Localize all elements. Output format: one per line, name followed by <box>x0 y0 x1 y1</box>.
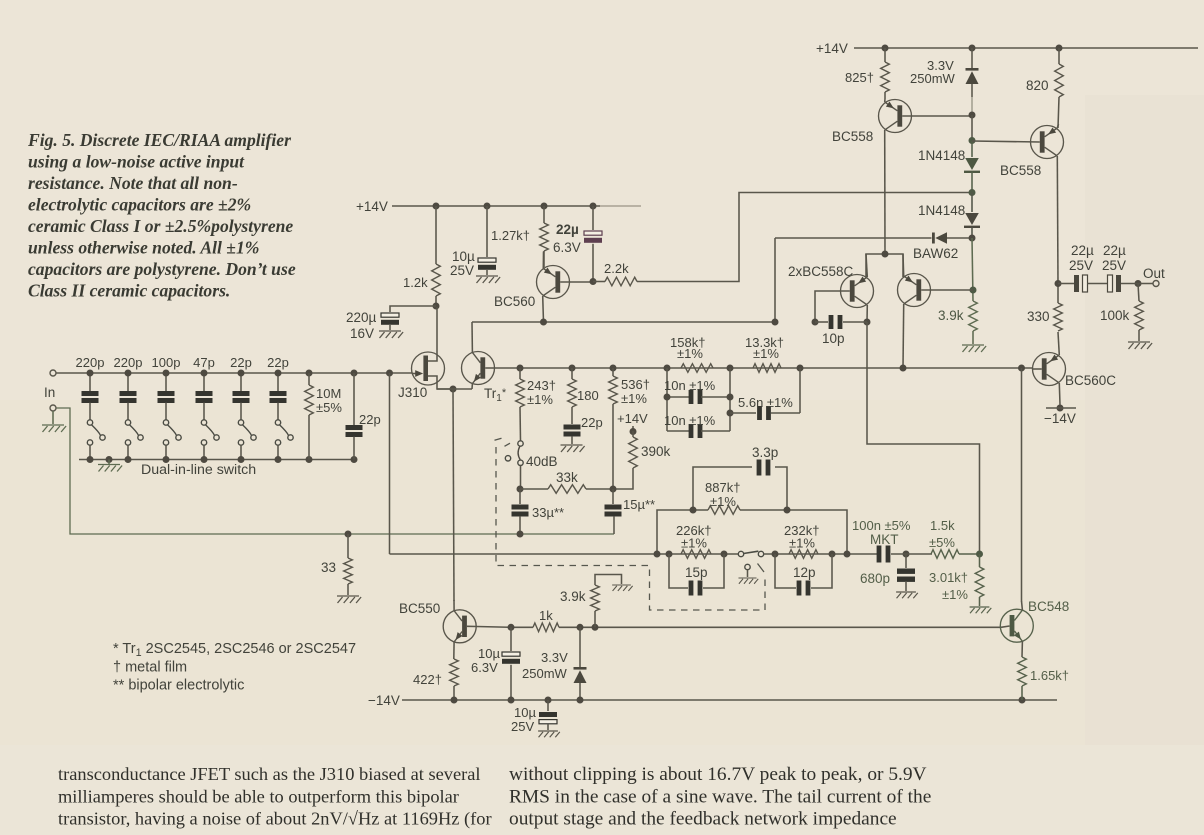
capacitor 5.6n <box>730 368 800 420</box>
svg-text:1k: 1k <box>539 608 553 623</box>
svg-text:3.3V: 3.3V <box>541 650 568 665</box>
capacitor 22p emitter <box>564 425 581 445</box>
svg-text:BAW62: BAW62 <box>913 246 958 261</box>
node output coupling junctions <box>1055 280 1142 287</box>
label 330 <box>1027 309 1050 324</box>
wire source-emitter tie <box>437 388 472 390</box>
svg-text:electrolytic capacitors are ±2: electrolytic capacitors are ±2% <box>28 195 251 215</box>
svg-text:243†: 243† <box>527 378 556 393</box>
node BC558C emitter tie junction <box>882 251 889 258</box>
resistor 2.2k <box>593 193 969 286</box>
svg-text:10µ: 10µ <box>452 249 475 264</box>
node Out terminal <box>1153 281 1159 287</box>
node 1.2k bottom junction <box>433 303 440 310</box>
label 12p <box>793 565 816 580</box>
label 220p #2 <box>114 355 143 370</box>
node +14V mid stub <box>630 426 637 435</box>
svg-text:10n ±1%: 10n ±1% <box>664 378 716 393</box>
switch feedback <box>738 551 763 557</box>
wire Tr1 collector line <box>472 321 775 323</box>
wire +14V left rail <box>392 205 641 207</box>
svg-text:BC548: BC548 <box>1028 599 1069 614</box>
label BC560 <box>494 294 535 309</box>
svg-text:resistance. Note that all non-: resistance. Note that all non- <box>28 173 238 193</box>
node feedback output junction <box>976 551 983 558</box>
svg-text:15µ**: 15µ** <box>623 497 655 512</box>
wire feedback row mid <box>764 553 878 555</box>
resistor 887k <box>657 506 847 554</box>
ground 100k <box>1128 342 1152 349</box>
label BC550 <box>399 601 440 616</box>
ground 10u 25V lower <box>538 731 560 737</box>
wire collector row <box>477 626 533 629</box>
svg-text:22µ: 22µ <box>556 222 579 237</box>
svg-text:BC560C: BC560C <box>1065 373 1116 388</box>
resistor 422 <box>450 659 459 700</box>
resistor 1.5k <box>931 550 980 559</box>
resistor 243 <box>516 368 525 441</box>
label 158k ±1% <box>670 335 705 361</box>
node 10p row junctions <box>772 319 871 326</box>
capacitor 10n second <box>667 424 730 438</box>
diode 1N4148 second <box>964 193 980 239</box>
svg-text:transistor, having a noise of: transistor, having a noise of about 2nV/… <box>58 809 492 830</box>
svg-text:25V: 25V <box>1069 258 1093 273</box>
svg-text:* Tr1 2SC2545, 2SC2546 or 2SC2: * Tr1 2SC2545, 2SC2546 or 2SC2547 <box>113 641 356 659</box>
transistor BC548 <box>1000 601 1033 657</box>
svg-text:+14V: +14V <box>816 41 848 56</box>
node 10n junctions <box>664 394 734 417</box>
svg-text:10p: 10p <box>822 331 845 346</box>
label Out <box>1143 266 1165 281</box>
svg-text:1N4148: 1N4148 <box>918 203 965 218</box>
svg-text:RMS in the case of a sine wave: RMS in the case of a sine wave. The tail… <box>509 786 931 807</box>
svg-text:422†: 422† <box>413 672 442 687</box>
resistor 158k <box>681 364 713 373</box>
label 1.5k ±5% <box>929 518 955 550</box>
label 22u 25V second <box>1102 243 1126 273</box>
wire -14V stub <box>1046 407 1076 409</box>
svg-text:±5%: ±5% <box>316 400 342 415</box>
resistor 232k <box>789 550 818 559</box>
svg-text:25V: 25V <box>511 719 534 734</box>
svg-text:Fig. 5. Discrete IEC/RIAA ampl: Fig. 5. Discrete IEC/RIAA amplifier <box>27 130 291 150</box>
svg-text:using a low-noise active input: using a low-noise active input <box>28 152 245 172</box>
label J310 <box>398 385 427 400</box>
ground 33 <box>337 596 361 603</box>
svg-text:180: 180 <box>577 388 599 403</box>
wire 10n left column <box>666 368 668 431</box>
svg-text:10µ: 10µ <box>478 646 500 661</box>
node 536 bottom junction <box>610 486 617 493</box>
capacitor 100p #3 <box>158 373 175 420</box>
node feedback row junctions <box>654 551 728 558</box>
resistor 33k <box>520 485 613 494</box>
switch 40dB <box>505 441 523 486</box>
label 100k <box>1100 308 1130 323</box>
resistor 3.01k <box>975 554 984 606</box>
wire 10n right column <box>729 368 731 431</box>
resistor 180 <box>568 368 577 424</box>
svg-text:Dual-in-line switch: Dual-in-line switch <box>141 462 256 478</box>
wire -14V rail <box>402 699 1057 701</box>
ground 10u 25V upper <box>476 276 500 283</box>
ground 3.9k right <box>962 345 986 352</box>
label 33k <box>556 470 578 485</box>
label 33u <box>532 505 564 520</box>
node input rail junctions <box>87 370 394 377</box>
label 100n ±5% MKT <box>852 518 911 547</box>
svg-text:±1%: ±1% <box>527 392 553 407</box>
svg-text:output stage and the feedback: output stage and the feedback network im… <box>509 809 897 830</box>
svg-text:±1%: ±1% <box>677 346 703 361</box>
resistor 1.27k <box>540 206 549 267</box>
svg-text:33µ**: 33µ** <box>532 505 564 520</box>
capacitor 10u 25V upper <box>478 206 496 275</box>
capacitor 10p <box>815 315 867 329</box>
node BC560 base junction <box>590 278 597 285</box>
transistor J310 <box>412 307 451 389</box>
transistor BC560C <box>1033 332 1066 405</box>
node -14V rail junctions <box>451 697 1026 704</box>
label 243 ±1% <box>527 378 556 407</box>
svg-text:unless otherwise noted. All ±1: unless otherwise noted. All ±1% <box>28 238 259 258</box>
resistor 330 <box>1054 284 1063 332</box>
resistor 100k <box>1135 284 1144 342</box>
label 22p #6 <box>267 355 289 370</box>
svg-text:−14V: −14V <box>368 693 400 708</box>
capacitor 3.3p <box>693 460 787 511</box>
svg-text:887k†: 887k† <box>705 480 740 495</box>
label 1N4148 first <box>918 148 965 163</box>
capacitor 680p <box>897 554 915 591</box>
svg-text:15p: 15p <box>685 565 708 580</box>
label 2xBC558C <box>788 264 854 279</box>
label Dual-in-line switch <box>141 462 256 478</box>
label 3.3V 250mW top <box>910 58 956 86</box>
capacitor 22u 25V first <box>1058 275 1108 292</box>
svg-text:33: 33 <box>321 560 336 575</box>
svg-text:±1%: ±1% <box>789 536 815 551</box>
switch feedback ground post <box>738 564 758 583</box>
label 15u <box>623 497 655 512</box>
switch S6 <box>275 420 293 460</box>
wire zener column to 3.9k <box>972 238 973 301</box>
resistor 226k <box>681 550 711 559</box>
ground 3.01k <box>970 607 992 613</box>
label 825 <box>845 70 874 85</box>
wire BC550 base column <box>453 389 454 601</box>
svg-text:1.65k†: 1.65k† <box>1030 668 1069 683</box>
resistor 13.3k <box>753 364 781 373</box>
svg-text:330: 330 <box>1027 309 1050 324</box>
svg-text:6.3V: 6.3V <box>553 240 581 255</box>
label 3.3V 250mW bottom <box>522 650 568 681</box>
wire +14V top rail <box>854 47 1198 49</box>
wire BC548 collector column <box>1021 368 1023 602</box>
svg-text:680p: 680p <box>860 571 890 586</box>
diode BAW62 <box>775 232 969 244</box>
node diode mid junction <box>969 189 976 196</box>
svg-text:Class II ceramic capacitors.: Class II ceramic capacitors. <box>28 281 230 301</box>
svg-text:820: 820 <box>1026 78 1049 93</box>
wire feedback tap vertical <box>389 373 391 554</box>
capacitor 33u <box>512 489 529 534</box>
svg-text:5.6n ±1%: 5.6n ±1% <box>738 395 793 410</box>
label 10u 25V upper <box>450 249 475 278</box>
svg-text:220p: 220p <box>76 355 105 370</box>
label 1.27k <box>491 228 530 243</box>
svg-text:BC558: BC558 <box>832 129 873 144</box>
capacitor 10n first <box>667 390 730 404</box>
svg-text:100p: 100p <box>152 355 181 370</box>
svg-text:3.9k: 3.9k <box>560 589 586 604</box>
transistor Tr1 <box>462 322 495 389</box>
capacitor 220u 16V <box>381 306 436 330</box>
svg-text:250mW: 250mW <box>522 666 568 681</box>
label BC558 second <box>1000 163 1041 178</box>
resistor 3.9k mid <box>591 575 622 628</box>
switch S3 <box>163 420 181 460</box>
label +14V top <box>816 41 848 56</box>
resistor 390k <box>613 431 637 489</box>
svg-text:220p: 220p <box>114 355 143 370</box>
label 10p <box>822 331 845 346</box>
node BC558C right base junction <box>970 287 977 294</box>
node DIL bottom rail junctions <box>87 456 358 463</box>
label 680p <box>860 571 890 586</box>
svg-text:** bipolar electrolytic: ** bipolar electrolytic <box>113 678 244 694</box>
svg-text:220µ: 220µ <box>346 310 377 325</box>
svg-text:825†: 825† <box>845 70 874 85</box>
capacitor 15u <box>605 489 622 534</box>
label 3.3p <box>752 445 778 460</box>
svg-text:capacitors are polystyrene. Do: capacitors are polystyrene. Don’t use <box>28 259 296 279</box>
label 22u 6.3V <box>553 222 581 255</box>
svg-text:3.3p: 3.3p <box>752 445 778 460</box>
node 887k junctions <box>690 507 791 514</box>
ground In <box>42 425 66 432</box>
resistor 536 <box>609 368 618 489</box>
node 33u bottom junction <box>345 531 524 538</box>
label 22u 25V first <box>1069 243 1094 273</box>
transistor BC558 second <box>972 124 1064 284</box>
switch S2 <box>125 420 143 460</box>
label 10n first <box>664 378 716 393</box>
svg-text:−14V: −14V <box>1044 411 1076 426</box>
node main rail junctions <box>517 365 1026 372</box>
ground 3.9k mid <box>612 585 632 591</box>
resistor 33 <box>344 534 353 595</box>
switch S1 <box>87 420 105 460</box>
label BAW62 <box>913 246 958 261</box>
svg-text:BC550: BC550 <box>399 601 440 616</box>
label 22p emitter <box>581 415 603 430</box>
ground 22p emitter <box>561 445 585 452</box>
label 1k <box>539 608 553 623</box>
label 10u 25V lower <box>511 705 536 734</box>
label 15p <box>685 565 708 580</box>
node feedback row junctions right <box>772 551 910 558</box>
node 33k left junction <box>517 486 524 493</box>
wire zener to diode chain <box>971 115 973 140</box>
label 820 <box>1026 78 1049 93</box>
svg-text:† metal film: † metal film <box>113 660 187 676</box>
label 390k <box>641 444 671 459</box>
svg-text:J310: J310 <box>398 385 427 400</box>
body text right column <box>509 764 931 830</box>
svg-text:3.9k: 3.9k <box>938 308 964 323</box>
capacitor 22u 6.3V <box>584 206 602 281</box>
svg-text:536†: 536† <box>621 377 650 392</box>
label 1N4148 second <box>918 203 965 218</box>
node emitter-source junction <box>450 386 457 393</box>
wire DIL bottom rail <box>79 459 354 461</box>
node +14V top rail junctions <box>882 45 1063 52</box>
label 180 <box>577 388 599 403</box>
svg-text:12p: 12p <box>793 565 816 580</box>
svg-text:without clipping is about 16.7: without clipping is about 16.7V peak to … <box>509 764 927 785</box>
capacitor 12p <box>775 554 832 596</box>
svg-text:BC560: BC560 <box>494 294 535 309</box>
label 232k ±1% <box>784 523 819 551</box>
svg-text:10n ±1%: 10n ±1% <box>664 413 716 428</box>
resistor 10M <box>305 373 314 460</box>
label 13.3k ±1% <box>745 335 784 361</box>
svg-text:1.5k: 1.5k <box>930 518 955 533</box>
node zener-base junction <box>969 112 976 119</box>
label 220p #1 <box>76 355 105 370</box>
label BC548 <box>1028 599 1069 614</box>
label 422 <box>413 672 442 687</box>
resistor 1.65k <box>1018 657 1027 700</box>
svg-text:MKT: MKT <box>870 532 899 547</box>
svg-text:3.01k†: 3.01k† <box>929 570 968 585</box>
label BC560C <box>1065 373 1116 388</box>
wire feedback row left <box>390 553 739 555</box>
svg-text:47p: 47p <box>193 355 215 370</box>
dashed switch linkage <box>495 438 766 610</box>
label Tr1* <box>484 386 507 404</box>
node BC560C collector junction <box>1057 405 1064 412</box>
label 2.2k <box>604 261 629 276</box>
label 3.01k ±1% <box>929 570 968 602</box>
label 1.65k <box>1030 668 1069 683</box>
svg-text:40dB: 40dB <box>526 454 558 469</box>
node first diode node <box>969 137 976 144</box>
svg-text:1.2k: 1.2k <box>403 275 428 290</box>
ground 220u <box>379 331 403 338</box>
svg-text:22p: 22p <box>267 355 289 370</box>
diode zener 3.3V bottom <box>574 627 587 700</box>
capacitor 10u 6.3V <box>502 627 520 700</box>
transistor BC558C right <box>898 254 974 368</box>
capacitor 47p #4 <box>196 373 213 420</box>
svg-text:100k: 100k <box>1100 308 1130 323</box>
wire main rail <box>494 367 1033 369</box>
node BC560 collector junction <box>540 319 547 326</box>
transistor BC558 first <box>879 99 970 254</box>
svg-text:1N4148: 1N4148 <box>918 148 965 163</box>
transistor BC550 <box>443 600 477 659</box>
label In <box>44 385 55 400</box>
label 3.9k mid <box>560 589 586 604</box>
body text left column <box>58 764 492 830</box>
node 1k right junctions <box>577 624 599 631</box>
wire In lower terminal right-down to bottom line <box>57 408 615 534</box>
capacitor 22u 25V second <box>1108 275 1153 292</box>
node In terminal <box>50 370 56 411</box>
node +14V left rail junctions <box>433 203 597 210</box>
resistor 1.2k <box>432 206 441 306</box>
svg-text:±1%: ±1% <box>710 494 736 509</box>
node BAW62 node <box>969 235 976 242</box>
wire BC558C emitter tie <box>866 254 903 278</box>
resistor 820 <box>1055 48 1064 128</box>
capacitor 10u 25V lower <box>539 700 557 730</box>
label 1.2k <box>403 275 428 290</box>
label 40dB <box>526 454 558 469</box>
capacitor 15p <box>669 554 724 596</box>
svg-text:25V: 25V <box>450 263 474 278</box>
label 47p #4 <box>193 355 215 370</box>
ground DIL bottom rail <box>98 465 122 472</box>
capacitor 22p input <box>346 373 363 460</box>
label 22p input <box>359 412 381 427</box>
svg-text:1.27k†: 1.27k† <box>491 228 530 243</box>
svg-text:In: In <box>44 385 55 400</box>
transistor BC558C left <box>815 254 874 322</box>
resistor 825 <box>881 48 890 99</box>
label -14V right <box>1044 411 1076 426</box>
resistor 3.9k right <box>969 301 978 344</box>
svg-text:+14V: +14V <box>617 411 648 426</box>
svg-text:±1%: ±1% <box>621 391 647 406</box>
resistor 1k <box>533 623 1001 632</box>
label 10u 6.3V <box>471 646 500 675</box>
label -14V left <box>368 693 400 708</box>
transistor BC560 <box>537 252 594 323</box>
wire BAW62 drop <box>774 238 776 322</box>
svg-text:390k: 390k <box>641 444 671 459</box>
label 5.6n <box>738 395 793 410</box>
svg-text:10µ: 10µ <box>514 705 536 720</box>
node 1k left junction <box>508 624 515 631</box>
label 33 <box>321 560 336 575</box>
label 226k ±1% <box>676 523 711 551</box>
wire In lower terminal to ground stem <box>52 411 54 424</box>
label +14V left <box>356 199 388 214</box>
switch S4 <box>201 420 219 460</box>
capacitor 220p #1 <box>82 373 99 420</box>
svg-text:2xBC558C: 2xBC558C <box>788 264 854 279</box>
label BC558 first <box>832 129 873 144</box>
wire input rail <box>57 372 413 374</box>
svg-text:16V: 16V <box>350 326 374 341</box>
label 536 ±1% <box>621 377 650 406</box>
svg-text:10M: 10M <box>316 386 341 401</box>
svg-text:BC558: BC558 <box>1000 163 1041 178</box>
ground 680p <box>896 592 918 598</box>
label 887k ±1% <box>705 480 740 509</box>
capacitor 220p #2 <box>120 373 137 420</box>
svg-text:100n ±5%: 100n ±5% <box>852 518 911 533</box>
svg-text:25V: 25V <box>1102 258 1126 273</box>
diode 1N4148 first <box>964 141 980 193</box>
capacitor 22p #6 <box>270 373 287 420</box>
svg-text:33k: 33k <box>556 470 578 485</box>
svg-text:+14V: +14V <box>356 199 388 214</box>
